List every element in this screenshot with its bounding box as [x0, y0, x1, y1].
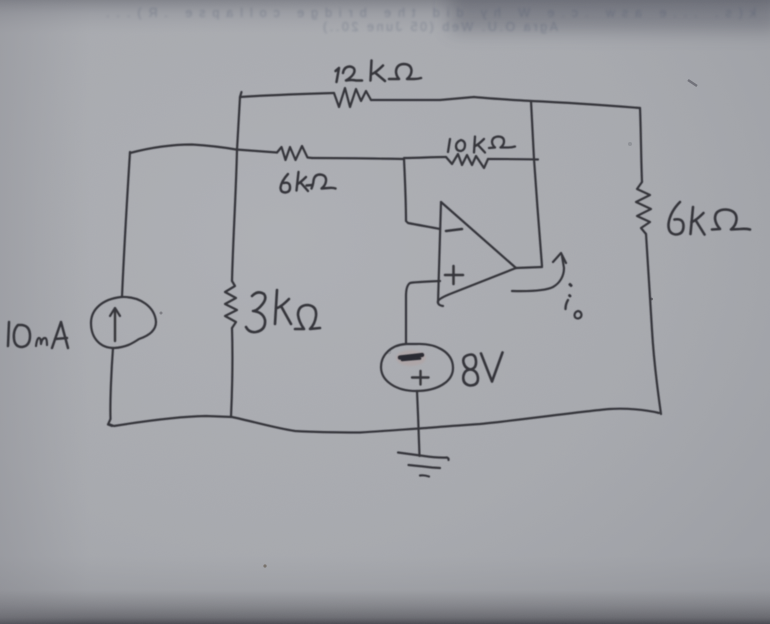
- current source I1 10mA: [8, 297, 156, 348]
- ground: [398, 453, 449, 477]
- resistor R4 10k: [446, 137, 515, 169]
- wire: [110, 409, 659, 433]
- wire: [488, 158, 538, 161]
- wire: [371, 97, 640, 108]
- wire: [130, 145, 236, 154]
- wire: [236, 150, 277, 153]
- wire: [417, 391, 420, 456]
- wire: [404, 159, 440, 229]
- resistor R5 6k right: [636, 182, 750, 235]
- wire: [122, 152, 130, 297]
- wire: [404, 157, 446, 158]
- resistor R3 6k middle: [277, 146, 336, 193]
- faint printed bleed-through text: [106, 6, 756, 34]
- wire: [240, 92, 334, 97]
- resistor R1 12k: [334, 61, 421, 108]
- wire: [646, 234, 661, 414]
- voltage source V1 8V: [381, 344, 503, 391]
- output current arrow i_o: [512, 253, 582, 319]
- wire: [312, 158, 404, 159]
- wire: [516, 267, 542, 268]
- wire: [108, 348, 113, 426]
- op-amp U1: [438, 202, 516, 306]
- wire: [531, 101, 542, 266]
- wire: [406, 281, 440, 344]
- wire: [231, 328, 232, 417]
- resistor R2 3k: [225, 281, 320, 332]
- wire: [232, 97, 240, 281]
- small specks: [263, 564, 266, 567]
- wire: [640, 108, 642, 182]
